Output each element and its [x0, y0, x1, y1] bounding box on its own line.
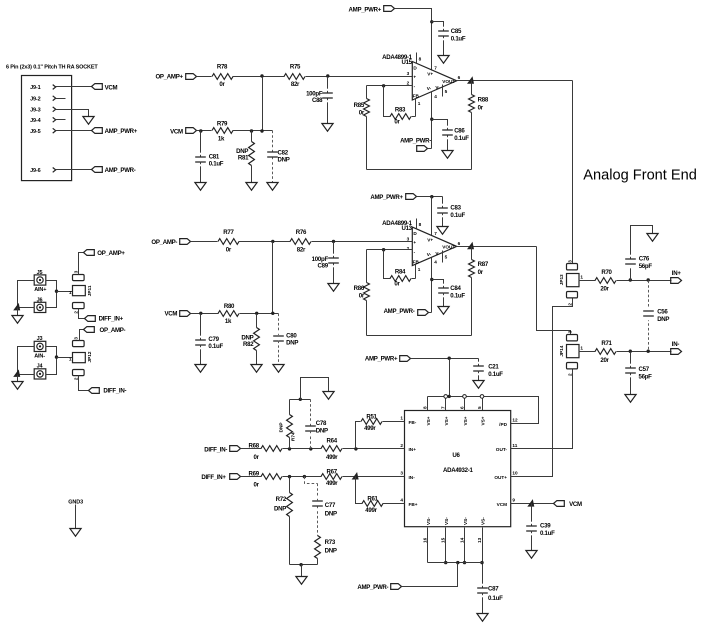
jumper JP11 body [73, 286, 86, 296]
ground at J3/J4 [12, 375, 23, 390]
svg-text:J9-1: J9-1 [30, 85, 40, 91]
jumper JP12 pad 3 [73, 341, 85, 347]
svg-text:C21: C21 [488, 363, 499, 370]
capacitor C56 DNP [643, 281, 669, 352]
wire VCM to R80 [191, 313, 219, 315]
svg-text:OUT+: OUT+ [494, 475, 507, 480]
ground at input network [323, 392, 334, 400]
wire R84 to FB pin [412, 278, 416, 280]
svg-text:1k: 1k [218, 136, 225, 143]
wire riser to R61 [356, 477, 363, 504]
svg-text:R68: R68 [249, 443, 260, 450]
svg-text:DNP: DNP [325, 511, 337, 518]
flag OP_AMP- (U13 input) [151, 239, 190, 246]
svg-text:2: 2 [567, 373, 572, 376]
svg-text:C78: C78 [316, 420, 327, 427]
junction at C84 [430, 278, 433, 281]
wire AMP_PWR+ to U13 pin 7 [417, 196, 443, 198]
wire J9-5 to AMP_PWR+ [56, 130, 92, 132]
wire node A to VCM row [262, 77, 264, 131]
wire R80 to C80 [240, 313, 279, 315]
wire U15 pin 2 [367, 85, 413, 87]
junction DNP top node [299, 398, 302, 401]
ground at C83 [437, 227, 448, 235]
wire DNP top node [290, 399, 311, 401]
ground at DNP rail [296, 565, 307, 585]
svg-text:1: 1 [418, 267, 421, 272]
svg-text:82r: 82r [291, 81, 300, 88]
flag AMP_PWR+ (U13) [370, 194, 416, 202]
junction at R88 [467, 76, 474, 84]
svg-text:56pF: 56pF [639, 374, 653, 381]
wire to C86 [432, 120, 448, 131]
svg-text:JP13: JP13 [559, 274, 564, 285]
svg-text:VS-: VS- [444, 517, 449, 525]
svg-text:C76: C76 [639, 255, 650, 262]
svg-text:VCM: VCM [497, 502, 508, 507]
wire AMP_PWR+ to C21 [411, 358, 479, 360]
ground at J9-3 [83, 117, 94, 125]
svg-text:0.1uF: 0.1uF [208, 343, 223, 350]
wire J9-3 to ground [56, 110, 89, 117]
flag DIFF_IN+ (JP11) [85, 316, 124, 323]
svg-text:J6: J6 [37, 298, 43, 304]
pin 11 OUT- of U6 [496, 443, 518, 452]
connector J6 (AIN+) [34, 298, 46, 313]
svg-text:JP14: JP14 [559, 345, 564, 356]
svg-text:J9-4: J9-4 [30, 118, 41, 124]
capacitor C85 0.1uF [438, 28, 466, 56]
capacitor C82 DNP [267, 131, 290, 183]
junction at J3/J4 ground tie [13, 369, 20, 377]
svg-text:6: 6 [458, 75, 461, 80]
svg-text:DIFF_IN-: DIFF_IN- [103, 388, 126, 395]
pin 8 of U6 [422, 397, 427, 411]
svg-text:J5: J5 [37, 270, 43, 276]
svg-text:4: 4 [434, 260, 437, 265]
resistor R72 DNP [274, 477, 292, 565]
svg-text:C57: C57 [639, 366, 650, 373]
svg-text:0r: 0r [226, 247, 232, 254]
svg-text:U15: U15 [401, 59, 412, 66]
flag OP_AMP+ (U15 input) [155, 73, 196, 80]
svg-text:R84: R84 [395, 269, 406, 276]
wire to R84 [384, 250, 391, 279]
wire R78 to node A [233, 76, 285, 78]
pin label VS+ x4 of U6 [426, 416, 486, 425]
pin 16 of U6 [422, 528, 427, 563]
flag AMP_PWR- (U13) [384, 308, 432, 316]
wire DIFF_IN+ to R69 [241, 476, 262, 478]
ground at J5/J6 [12, 308, 23, 324]
wire R67 to U6 pin 3 [343, 476, 405, 478]
svg-text:VS-: VS- [480, 517, 485, 525]
ground at C81 [195, 183, 206, 191]
ground at C39 [526, 551, 537, 559]
svg-text:VS-: VS- [463, 517, 468, 525]
resistor R61 499r [362, 495, 383, 514]
svg-text:AMP_PWR+: AMP_PWR+ [349, 7, 382, 14]
IC U6 ADA4932-1 body [405, 411, 511, 527]
op-amp U13 ADA4899-1 [382, 220, 457, 266]
ground at C79 [195, 365, 206, 373]
svg-text:5: 5 [477, 406, 482, 409]
svg-text:0r: 0r [359, 110, 365, 117]
resistor R78 0r [212, 64, 233, 89]
flag AMP_PWR+ (U6) [365, 356, 411, 363]
svg-text:VS+: VS+ [480, 416, 485, 425]
resistor R87 0r [469, 247, 489, 336]
wire U15 output [457, 80, 573, 82]
svg-text:9: 9 [512, 498, 515, 503]
svg-text:+: + [413, 75, 416, 80]
svg-text:R69: R69 [249, 470, 260, 477]
junction at U13 pin7 [430, 195, 433, 198]
wire AMP_PWR+ to U15 pin 7 [395, 9, 432, 71]
flag AMP_PWR+ (J9-5) [92, 128, 138, 135]
jumper JP11 pad 2 [73, 303, 85, 309]
junction at R81 [250, 129, 253, 132]
svg-text:VS+: VS+ [463, 416, 468, 425]
pin 1 FB- of U6 [400, 416, 416, 425]
capacitor C83 0.1uF [437, 197, 465, 227]
svg-text:OP_AMP-: OP_AMP- [100, 327, 126, 334]
svg-text:R61: R61 [367, 495, 378, 502]
resistor R82 DNP [241, 314, 259, 365]
flag AMP_PWR- (U15) [400, 138, 431, 152]
pin 9 VCM of U6 [497, 498, 516, 507]
svg-text:C77: C77 [325, 502, 336, 509]
svg-text:2: 2 [74, 377, 79, 380]
svg-text:0.1uF: 0.1uF [450, 293, 465, 300]
junction at C88 [326, 74, 329, 77]
wire R61 to U6 pin 4 [383, 503, 405, 505]
wire J9-6 to AMP_PWR- [56, 169, 92, 171]
resistor R80 1k [218, 303, 239, 325]
flag OP_AMP- (JP12) [84, 327, 126, 334]
flag DIFF_IN- (to U6 IN+) [204, 446, 240, 454]
svg-text:R73: R73 [325, 539, 336, 546]
svg-text:7: 7 [434, 65, 437, 70]
wire R79 to C82 [233, 130, 273, 132]
pin label VS- x4 of U6 [426, 517, 486, 525]
svg-text:OP_AMP-: OP_AMP- [151, 239, 177, 246]
svg-text:8: 8 [419, 57, 422, 62]
svg-text:R67: R67 [327, 468, 338, 475]
wire to JP11 pin 1 [57, 291, 73, 293]
wire OP_AMP+ to R78 [197, 76, 212, 78]
resistor R85 0r [354, 86, 370, 170]
svg-text:0r: 0r [254, 454, 260, 461]
svg-text:DNP: DNP [316, 427, 328, 434]
ground at R81 [246, 183, 257, 191]
capacitor C86 0.1uF [442, 127, 469, 150]
wire DNP bottom rail [290, 564, 318, 566]
svg-text:1: 1 [580, 346, 583, 351]
pin 8 of U13 [417, 219, 422, 229]
svg-text:0r: 0r [478, 269, 484, 276]
pin 2 IN+ of U6 [400, 443, 416, 452]
svg-text:AMP_PWR-: AMP_PWR- [357, 584, 388, 591]
wire JP11 pad 2 to DIFF_IN+ [79, 309, 85, 319]
svg-text:VOUT: VOUT [442, 245, 455, 250]
capacitor C87 0.1uF [477, 585, 503, 613]
svg-text:C87: C87 [488, 585, 499, 592]
svg-text:V+: V+ [427, 237, 433, 242]
pin J9-5 [30, 128, 56, 135]
svg-text:3: 3 [400, 471, 403, 476]
wire JP14 pin 1 to R71 [579, 351, 596, 353]
junction at C56 top [647, 278, 650, 281]
flag VCM (U15 bias) [170, 128, 196, 136]
svg-text:499r: 499r [326, 480, 338, 487]
wire R64 to U6 pin 2 [343, 448, 405, 450]
wire J9-1 to VCM [56, 86, 92, 88]
pin 3 IN- of U6 [400, 471, 415, 480]
ground at C87 [477, 614, 488, 622]
svg-text:499r: 499r [364, 425, 376, 432]
capacitor C79 0.1uF [195, 314, 223, 365]
svg-text:1: 1 [418, 101, 421, 106]
svg-text:11: 11 [512, 443, 517, 448]
pin J9-6 [30, 168, 56, 175]
ground at C88 [322, 124, 333, 132]
svg-text:2: 2 [74, 311, 79, 314]
svg-text:AMP_PWR+: AMP_PWR+ [370, 194, 403, 201]
wire AMP_PWR- to VS- bus [402, 563, 458, 587]
resistor R67 499r [321, 468, 342, 487]
svg-text:R85: R85 [354, 102, 365, 109]
svg-text:DIFF_IN+: DIFF_IN+ [201, 474, 226, 481]
wire VS+ bus [428, 397, 539, 424]
junction at U15 feedback [382, 84, 385, 87]
svg-text:R82: R82 [243, 341, 254, 348]
jumper JP12 body [73, 353, 86, 363]
svg-text:VCM: VCM [105, 84, 118, 91]
svg-text:2: 2 [400, 443, 403, 448]
wire JP13 pin 1 to R70 [579, 280, 596, 282]
svg-text:R83: R83 [395, 107, 406, 114]
svg-text:JP12: JP12 [87, 351, 92, 362]
pin 5 of U15 [443, 85, 448, 97]
pin 5 of U13 [443, 251, 448, 263]
svg-text:DNP: DNP [278, 156, 290, 163]
svg-text:0r: 0r [394, 280, 400, 287]
svg-text:R78: R78 [217, 64, 228, 71]
svg-text:2: 2 [407, 81, 410, 86]
wire OUT- to JP14 pad 2 [511, 369, 573, 449]
wire VS- bus [428, 562, 483, 564]
svg-text:C39: C39 [540, 523, 551, 530]
svg-text:DNP: DNP [274, 505, 286, 512]
ground at C82 [267, 183, 278, 191]
connector J9 body [22, 76, 72, 181]
svg-text:ADA4932-1: ADA4932-1 [443, 467, 474, 474]
wire U13 pin 2 [367, 249, 413, 251]
jumper JP11 pad 3 [73, 275, 85, 281]
junction at JP12 pin 1 tie [55, 355, 58, 358]
pin 4 of U15 [432, 92, 438, 149]
svg-text:AIN-: AIN- [34, 354, 45, 360]
jumper JP14 pad 2 [567, 363, 578, 369]
pin J9-1 [30, 85, 56, 92]
capacitor C39 0.1uF [526, 504, 555, 551]
junction at C79 [199, 312, 202, 315]
svg-text:3: 3 [567, 260, 572, 263]
pin J9-2 [30, 96, 56, 103]
flag DIFF_IN- (JP12) [89, 388, 127, 395]
jumper JP13 body [567, 274, 580, 287]
capacitor C57 56pF [625, 352, 652, 395]
svg-text:R88: R88 [478, 97, 489, 104]
junction at U6 supply drop [448, 357, 451, 360]
svg-text:82r: 82r [297, 247, 306, 254]
svg-text:0.1uF: 0.1uF [488, 371, 503, 378]
pin 1 of U13 [416, 265, 421, 279]
wire JP12 pad 3 to OP_AMP- [80, 330, 84, 341]
wire R51 to U6 pin 1 [383, 421, 405, 423]
svg-text:VS+: VS+ [444, 416, 449, 425]
wire to R83 [384, 86, 391, 117]
pin 13 of U6 [477, 528, 484, 588]
svg-text:15: 15 [441, 537, 446, 543]
svg-text:V-: V- [435, 251, 440, 256]
flag AMP_PWR- (U6) [357, 584, 401, 591]
junction at R74 [288, 447, 291, 450]
svg-text:3: 3 [407, 236, 410, 241]
svg-text:V+: V+ [427, 72, 433, 77]
resistor R84 0r [390, 269, 411, 288]
wire U13 feedback rail [367, 335, 472, 337]
svg-text:0r: 0r [394, 118, 400, 125]
svg-text:R86: R86 [354, 285, 365, 292]
svg-text:AMP_PWR-: AMP_PWR- [105, 167, 136, 174]
pin 12 /PD of U6 [499, 417, 518, 426]
resistor R73 DNP [315, 507, 337, 565]
wire to C85 [432, 22, 444, 31]
resistor R79 1k [212, 121, 233, 143]
capacitor C80 DNP [273, 314, 298, 365]
ground at C86 [442, 151, 453, 159]
wire OUT+ to JP13 pad 2 [511, 299, 573, 477]
svg-text:R71: R71 [601, 340, 612, 347]
wire JP11 pad 3 to OP_AMP+ [79, 253, 84, 275]
pin 15 of U6 [441, 528, 448, 565]
svg-text:V-: V- [427, 86, 432, 91]
junction at node B drop [271, 312, 274, 315]
svg-text:IN+: IN+ [409, 447, 417, 452]
flag AMP_PWR- (J9-6) [92, 167, 136, 175]
capacitor C89 100pF [312, 242, 339, 284]
svg-text:J9-6: J9-6 [30, 168, 40, 174]
svg-text:JP11: JP11 [87, 285, 92, 296]
svg-text:8: 8 [419, 222, 422, 227]
svg-text:J3: J3 [37, 336, 43, 342]
svg-text:IN+: IN+ [672, 270, 682, 277]
svg-text:U13: U13 [401, 225, 412, 232]
flag AMP_PWR+ (U15) [349, 6, 395, 14]
svg-text:6 Pin (2x3) 0.1" Pitch TH RA S: 6 Pin (2x3) 0.1" Pitch TH RA SOCKET [6, 64, 98, 70]
svg-text:0r: 0r [219, 81, 225, 88]
resistor R88 0r [469, 81, 489, 170]
svg-text:C88: C88 [312, 97, 323, 104]
wire R77 to node B [239, 241, 291, 243]
svg-text:20r: 20r [600, 286, 609, 293]
svg-text:R75: R75 [290, 64, 301, 71]
pin 4 of U13 [432, 258, 438, 313]
wire U15 output to JP13 pad 3 [572, 81, 574, 264]
svg-text:0.1uF: 0.1uF [454, 135, 469, 142]
svg-text:FB+: FB+ [409, 502, 418, 507]
svg-text:0.1uF: 0.1uF [450, 212, 465, 219]
resistor R81 DNP [236, 131, 254, 183]
svg-text:IN-: IN- [409, 475, 416, 480]
wire DIFF_IN- to R68 [241, 448, 262, 450]
svg-text:0r: 0r [359, 293, 365, 300]
resistor R70 20r [595, 269, 616, 293]
ground at C76 [647, 234, 658, 242]
svg-text:FB-: FB- [409, 420, 417, 425]
svg-text:7: 7 [441, 406, 446, 409]
svg-text:VS-: VS- [426, 517, 431, 525]
svg-text:6: 6 [458, 241, 461, 246]
capacitor C21 0.1uF [473, 359, 503, 381]
svg-text:VCM: VCM [569, 501, 582, 508]
jumper JP14 pad 3 [567, 335, 578, 341]
svg-text:OP_AMP+: OP_AMP+ [155, 73, 183, 80]
ground at C89 [328, 284, 339, 292]
svg-text:J9-5: J9-5 [30, 129, 40, 135]
pin 10 OUT+ of U6 [494, 471, 518, 480]
svg-text:1: 1 [69, 356, 72, 361]
wire R83 to FB pin [412, 116, 416, 118]
pin J9-4 [30, 117, 56, 124]
junction at R72 [288, 475, 291, 478]
ground at C85 [438, 56, 449, 64]
ground GND3 [70, 505, 81, 537]
wire R76 to U13 pin 3 [312, 241, 413, 243]
svg-text:C85: C85 [451, 28, 462, 35]
wire node B to VCM row [272, 242, 274, 314]
wire to C84 [432, 280, 444, 289]
flag DIFF_IN+ (to U6 IN-) [201, 474, 240, 481]
svg-text:IN-: IN- [672, 341, 680, 348]
pin 14 of U6 [459, 528, 466, 565]
pin 8 of U15 [417, 53, 422, 64]
junction at C76 [629, 278, 632, 281]
wire J5/J6 right tie to JP11 pin 1 [46, 281, 57, 308]
flag IN+ [671, 270, 682, 284]
svg-text:VS+: VS+ [426, 416, 431, 425]
pin J9-3 [30, 107, 56, 114]
ground at C21 [473, 381, 484, 389]
wire top node to ground [301, 378, 329, 400]
svg-text:VCM: VCM [164, 311, 177, 318]
svg-text:0r: 0r [478, 105, 484, 112]
svg-text:Analog Front End: Analog Front End [583, 168, 697, 184]
junction VS+ drop [448, 395, 451, 398]
resistor R68 0r [249, 443, 283, 461]
junction at U13 feedback [382, 248, 385, 251]
svg-text:5: 5 [445, 255, 448, 260]
wire U6 supply drop [449, 359, 451, 397]
svg-text:DNP: DNP [278, 422, 283, 432]
wire J3/J4 right tie to JP12 pin 1 [46, 347, 57, 375]
junction at J5/J6 ground tie [13, 303, 20, 311]
svg-text:0.1uF: 0.1uF [209, 160, 224, 167]
svg-text:C86: C86 [454, 127, 465, 134]
wire J5/J6 left tie to ground [18, 281, 35, 308]
